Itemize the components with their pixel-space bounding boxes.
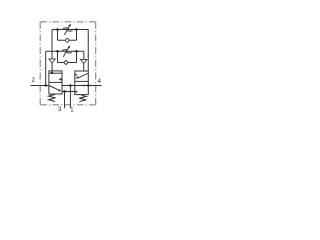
wire check branch left vertical — [57, 30, 59, 41]
svg-text:4: 4 — [98, 79, 102, 85]
svg-text:3: 3 — [58, 107, 62, 113]
wire left triangle to box top — [51, 63, 53, 73]
counterbalance valve left box — [49, 71, 62, 94]
check valve V1 diamond — [65, 38, 69, 42]
junction rail1 right — [75, 28, 78, 31]
left box lower diagonal arrow — [49, 86, 60, 91]
svg-text:1: 1 — [70, 108, 74, 114]
wire port 1 down — [69, 86, 71, 109]
wire check branch2 right vertical — [76, 51, 78, 62]
wire port 3 down — [64, 92, 66, 109]
junction rail2 right — [75, 50, 78, 53]
wire rail1 top — [52, 29, 88, 31]
pilot triangle right — [81, 59, 87, 63]
wire line B — [62, 91, 75, 93]
junction port3 — [63, 90, 66, 93]
wire rail2 right drop to pilot triangle — [83, 51, 85, 59]
throttle valve D1 arcs — [63, 28, 72, 31]
right box upper diagonal arrow — [78, 73, 89, 78]
pilot triangle left — [49, 59, 55, 63]
junction rail1 left — [56, 28, 59, 31]
left box upper arrow (blocked) — [58, 78, 61, 81]
spring left valve — [49, 94, 55, 101]
wire port 2 line — [31, 85, 49, 87]
svg-text:2: 2 — [32, 78, 36, 84]
junction port4 — [87, 84, 90, 87]
junction port2 — [44, 84, 47, 87]
junction rail2 left — [56, 50, 59, 53]
spring right valve — [79, 95, 86, 101]
wire check branch2 left vertical — [57, 51, 59, 62]
throttle valve D2 arcs — [62, 50, 72, 53]
throttle valve D1 adjust arrow — [64, 26, 69, 35]
wire left pilot drop from rail1 — [51, 30, 53, 59]
wire rail2 left drop to port2 — [45, 51, 47, 85]
wire check branch right vertical — [76, 30, 78, 41]
wire rail2 — [46, 50, 84, 52]
junction left box pilot — [51, 72, 53, 74]
wire line A to port 4 — [62, 85, 102, 87]
throttle valve D2 adjust arrow — [63, 48, 68, 57]
wire check rail2 — [58, 62, 77, 64]
left box cap line — [49, 72, 62, 74]
wire right drop from rail1 to box — [87, 30, 89, 72]
check valve V2 diamond — [64, 60, 68, 64]
enclosure dash-dot border — [40, 22, 95, 105]
right box left-edge wedge — [75, 74, 77, 76]
wire blocked stub in right box — [75, 91, 77, 93]
wire check rail1 — [58, 39, 77, 41]
wire right triangle to box top — [83, 63, 85, 71]
counterbalance valve right box — [75, 71, 89, 95]
right box lower arrow on line A — [83, 84, 85, 86]
junction port1 — [69, 84, 72, 87]
